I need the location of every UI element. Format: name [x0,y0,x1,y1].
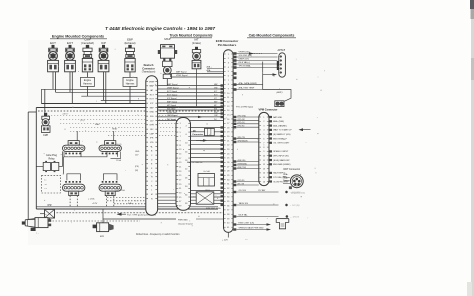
wire ECT Signal [158,92,224,94]
08 connector pins [177,122,179,124]
08 connector body [176,118,191,211]
wire bottom row 2 [103,218,176,220]
wire: CMP drop [87,86,89,96]
wire bank A down to injector bank [63,157,65,174]
wire bottom row 3 [28,219,35,221]
svg-text:Cab Mounted Components: Cab Mounted Components [249,34,295,38]
wire OIL SIG [237,191,279,193]
wire dotted row 2 [60,119,177,121]
glow plug connector bank A (top-left) [63,131,85,157]
wire bus row 2 [56,91,146,93]
sensor ECT [48,41,59,72]
fuel heater sensor (horizontal) [22,218,51,235]
wire: EBP drop [129,86,131,103]
injector connector bank A (bottom-left) [63,174,85,207]
wire [237,184,259,186]
wire S!G GND (BK) [237,56,278,58]
wire [158,196,177,198]
wire [237,181,259,183]
arrow on wire [203,139,208,141]
sensor CMP (in-box) [41,113,50,137]
wire bank B right drop [111,152,121,159]
wire: EOT drop [69,72,71,93]
sensor CMP [81,38,95,87]
wire [191,131,224,133]
wire IDLE VAL(+) [237,63,278,65]
wire SIG GND [158,109,224,111]
wire MAP Signal [158,85,224,87]
wire bottom row 1 [50,220,141,222]
wire: ECT drop b [55,72,57,93]
dotted wires from injector banks to Deutsch [107,197,146,199]
wire [237,138,259,140]
EPR connector (horizontal) [93,209,114,238]
wire IAT Signal [158,106,224,108]
wire [237,123,259,125]
wire [237,116,259,118]
DDT connector circle [290,175,303,188]
wire VREF upper [171,76,224,78]
wire VREF (GY) [237,60,278,62]
wire [129,72,131,78]
arrow note: IPR [117,213,122,216]
wire IAT drop [196,69,198,107]
arrow right on VPWR wire [249,52,254,55]
arrow on CMP signal wire [198,116,203,118]
wire TACH SIG [237,204,279,206]
VPM connector body [259,112,269,185]
wire TPS S!GNAL [237,67,278,69]
wire IDLE VAL [237,216,279,218]
wire dotted row 4 [70,127,177,129]
wire dotted row 1 [48,115,177,117]
wire EOT Signal [158,95,224,97]
AP155 accelerator connector [277,49,286,77]
wire [237,161,259,163]
wire VREF (GY) [158,113,224,115]
wire [237,164,259,166]
tag box (EBP harness) [123,77,137,86]
glow plug connector bank B (top-right) [99,131,121,157]
wire [191,161,224,163]
wire: CMP in-box feed [44,89,46,113]
wire [191,144,224,146]
wire EBP Signal [158,102,224,104]
wire [191,148,224,150]
wire dotted row 5 [70,131,177,133]
Deutsch connector pin labels [146,81,148,83]
wire: ICP drop [103,72,105,101]
sensor EOT [65,41,76,72]
scan right edge strip [471,0,474,296]
scan tone wash (decorative) [28,40,340,245]
wire MAP branch [170,74,172,78]
wire: ECT drop [52,72,54,90]
wire ICP Signal [158,99,224,101]
wire to pwr gnd [196,218,224,220]
ECM pin stubs right [233,52,236,55]
wire dotted row 6 [108,134,177,136]
wire [191,190,224,192]
wire ATA- [207,71,224,73]
wire: left riser [27,112,29,220]
glow plug relay [36,151,62,172]
wire [191,199,224,201]
wire below box [50,212,224,214]
wire bus left link [40,89,42,103]
wire ATA+ data [237,84,263,86]
wire [237,119,259,121]
IPR valve [40,204,55,221]
wire VREF Signal [158,88,224,90]
arrow toward AP oval [273,73,278,76]
wire riser to VPM plug [262,62,264,90]
AMP plug at VPM top [275,101,284,107]
svg-text:Truck Mounted Components: Truck Mounted Components [169,34,212,38]
wire bus row 1 [41,88,145,90]
sensor EBP [123,38,137,87]
wire [191,127,224,129]
wire [191,202,224,204]
wire ATA+ [207,68,224,70]
engine box left edge [35,108,37,210]
wire bus row 5 [41,103,145,105]
wire [158,202,177,204]
injector connector bank B (bottom-right) [99,174,121,207]
wire [191,135,224,137]
engine box bottom edge [36,208,218,210]
wire [237,141,259,143]
wire +12V stub [227,232,229,237]
wire ATA- data [237,89,263,91]
wire ENG CONT arrow [237,224,267,226]
relay box (fuel pump) [205,128,215,135]
wire dotted row 3 [60,123,177,125]
wire INJ Signal [158,120,224,122]
sensor MAP [158,37,177,78]
relay note dashed box [42,175,61,193]
engine box top edge [36,107,223,109]
wire [191,152,224,154]
wire [158,193,177,195]
wire MAP Signal upper [171,73,224,75]
wire VPWR (G5) [237,53,278,55]
wire [237,126,259,128]
wire [191,139,224,141]
tag box (CMP harness) [81,77,95,86]
wire bus row 4 [101,99,146,101]
engine box dotted inner line [38,110,223,112]
wire [191,157,224,159]
wire bus row 3 [81,95,146,97]
wire [191,193,224,195]
engine box bottom edge 2 [36,206,218,208]
wire [191,196,224,198]
ECM pin stubs left [221,84,224,86]
sensor ICP [98,41,109,72]
bracket component [276,218,289,220]
wire SPEEDO arrow [237,229,267,231]
wire CMP Signal [158,116,224,118]
arrow left mid-right [299,128,304,131]
wire: left riser exit [28,111,36,113]
svg-text:T 444E Electronic Engine Cont: T 444E Electronic Engine Controls - 1994… [105,26,215,32]
wire [87,72,89,78]
ECM connector body [224,50,234,233]
scan noise specks (decorative) [132,76,135,79]
sensor IAT [192,38,201,69]
wire: MAP drop [166,79,168,86]
wire [237,168,259,170]
svg-text:Engine Mounted Components: Engine Mounted Components [52,35,104,39]
wire [158,199,177,201]
Deutsch connector body [146,76,158,215]
wire bank A to bank B [64,152,107,157]
